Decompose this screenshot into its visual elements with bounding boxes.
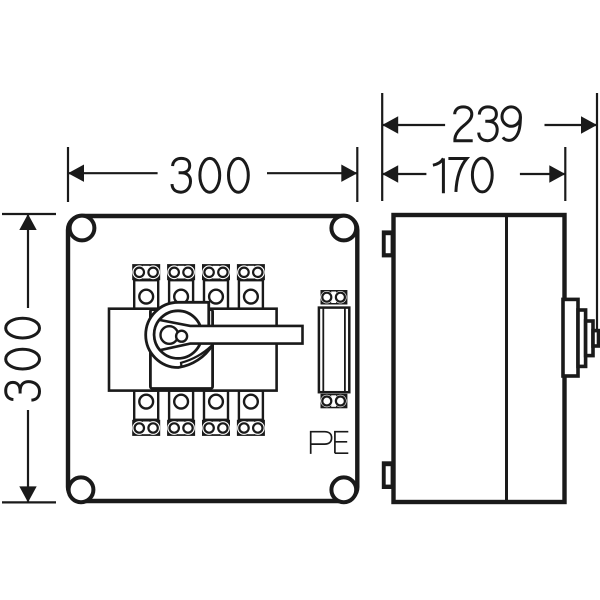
dimension 170 lid depth: line right segment [520, 173, 565, 175]
corner screw bottom-left [69, 477, 94, 502]
dimension 170 lid depth: text [433, 158, 492, 193]
corner screw bottom-right [331, 477, 356, 502]
rotary handle shaft step 3 [586, 321, 593, 356]
dimension 300 width: arrow right [341, 165, 357, 182]
switch pole 3 bottom clamp [202, 420, 230, 436]
dimension 239 depth: text [455, 107, 521, 141]
dimension 300 height: text [6, 318, 40, 400]
dimension 239 depth: arrow right [581, 116, 597, 133]
PE terminal rail body [319, 308, 349, 393]
side view top hinge tab [382, 230, 394, 257]
corner screw top-left [70, 216, 95, 241]
switch pole 3 top terminal leg [204, 280, 228, 309]
dimension 300 width: line right segment [267, 172, 357, 174]
handle hub circle large [161, 326, 179, 344]
PE terminal top clamp [321, 290, 348, 305]
dimension 300 height: arrow up [19, 214, 36, 230]
dimension 300 height: arrow down [19, 486, 36, 502]
switch pole 2 top clamp [167, 264, 195, 280]
dimension 300 width: line left segment [68, 172, 158, 174]
side view bottom hinge tab [382, 461, 394, 489]
rotary handle inner ring [154, 311, 202, 359]
dimension 300 width: extension line left [67, 147, 69, 202]
switch pole 1 bottom terminal leg [134, 391, 158, 420]
rotary handle lever [154, 320, 302, 350]
switch pole 3 bottom terminal leg [204, 391, 228, 420]
rotary handle shaft step 4 [593, 331, 599, 346]
switch pole 2 top terminal leg [169, 280, 193, 309]
dimension 170 lid depth: extension line right [564, 147, 566, 201]
dimension 239 depth: line left segment [382, 124, 445, 126]
switch pole 4 top terminal leg [239, 280, 263, 309]
switch pole 2 bottom terminal leg [169, 391, 193, 420]
dimension 300 height: extension line top [2, 213, 56, 215]
switch pole 1 top terminal leg [134, 280, 158, 309]
rotary handle shaft step 1 [563, 299, 578, 376]
switch pole 1 bottom clamp [132, 420, 160, 436]
switch pole 4 bottom clamp [237, 420, 265, 436]
rotary handle mounting pad [150, 310, 212, 389]
dimension 239 depth: extension line left [381, 93, 383, 201]
switch pole 4 bottom terminal leg [239, 391, 263, 420]
PE terminal bottom clamp [321, 394, 348, 409]
dimension 170 lid depth: line left segment [382, 173, 426, 175]
dimension 170 lid depth: arrow right [549, 165, 565, 182]
switch disconnector body [109, 309, 277, 391]
dimension 239 depth: extension line right [596, 93, 598, 330]
dimension 239 depth: line right segment [545, 124, 598, 126]
enclosure side view outline [394, 215, 565, 502]
dimension 300 width: arrow left [68, 165, 84, 182]
corner screw top-right [331, 216, 356, 241]
side view lid separation line [505, 215, 508, 502]
dimension 300 width: extension line right [356, 147, 358, 202]
switch pole 3 top clamp [202, 264, 230, 280]
switch pole 1 top clamp [132, 264, 160, 280]
PE label [311, 431, 349, 454]
dimension 239 depth: arrow left [382, 116, 398, 133]
dimension 300 height: line top segment [27, 214, 29, 308]
dimension 300 height: line bottom segment [27, 410, 29, 502]
dimension 300 height: extension line bottom [2, 501, 56, 503]
dimension 300 width: text [172, 158, 248, 192]
rotary handle shaft step 2 [578, 310, 586, 366]
enclosure front view outline [68, 216, 357, 501]
switch pole 2 bottom clamp [167, 420, 195, 436]
handle hub circle small [176, 331, 187, 342]
rotary handle escutcheon [146, 302, 213, 367]
dimension 170 lid depth: arrow left [382, 165, 398, 182]
switch pole 4 top clamp [237, 264, 265, 280]
